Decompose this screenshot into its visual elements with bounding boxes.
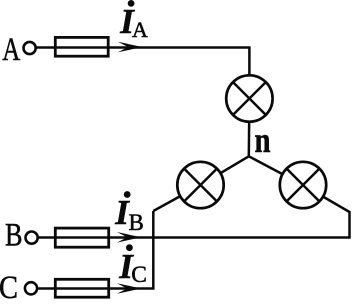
wire phase A vertical drop to top lamp — [248, 46, 251, 98]
wire top lamp to node n — [248, 99, 251, 157]
current direction arrow I_A — [118, 42, 142, 53]
phasor dot over I_C — [126, 244, 133, 251]
phasor dot over I_A — [128, 0, 135, 7]
fuse, phase A — [55, 37, 108, 56]
svg-text:A: A — [2, 32, 20, 68]
lamp, right (phase B side) — [280, 162, 326, 208]
terminal A — [24, 42, 36, 54]
lamp, phase A (top) — [226, 75, 272, 121]
phasor dot over I_B — [124, 191, 131, 198]
terminal C — [25, 282, 37, 294]
terminal B — [26, 232, 38, 244]
svg-text:C: C — [131, 262, 147, 288]
svg-text:C: C — [0, 270, 18, 300]
wire phase B: horizontal then up the right vertical — [39, 211, 350, 238]
lamp, left (phase C side) — [177, 162, 223, 208]
wire right lamp to right corner — [303, 185, 350, 212]
wire phase C: horizontal then up the left vertical (crosses B wire, no junction) — [37, 211, 153, 289]
wire left lamp to left corner — [153, 185, 200, 211]
wire node n to right lamp — [249, 156, 303, 185]
current direction arrow I_B — [117, 232, 141, 243]
fuse, phase B — [55, 228, 108, 247]
current direction arrow I_C — [117, 283, 141, 294]
svg-text:B: B — [5, 218, 23, 254]
wire phase A horizontal — [37, 46, 250, 49]
svg-text:n: n — [255, 120, 271, 160]
fuse, phase C — [55, 279, 108, 297]
wire node n to left lamp — [201, 156, 249, 185]
svg-text:B: B — [129, 210, 144, 235]
svg-text:A: A — [132, 17, 148, 42]
